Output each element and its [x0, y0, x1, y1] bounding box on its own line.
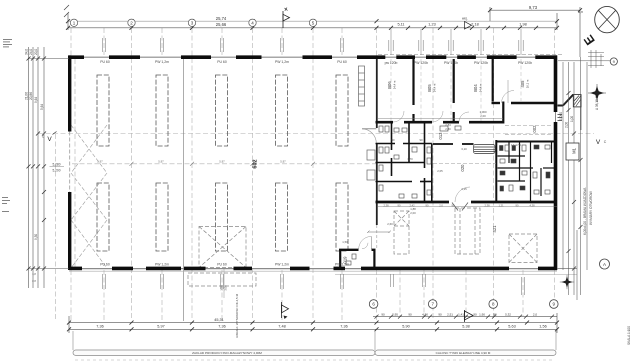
door arc hall/office	[362, 129, 376, 144]
svg-text:5,64: 5,64	[40, 104, 44, 110]
grid line 4	[252, 28, 254, 320]
door splay wall y202	[452, 203, 468, 211]
svg-text:17x17,5: 17x17,5	[511, 143, 521, 147]
top dimension texts	[216, 5, 538, 27]
tall roof element B (room 421)	[455, 208, 480, 254]
svg-text:1,060: 1,060	[559, 112, 563, 120]
grid bubbles top	[70, 19, 316, 26]
svg-text:1,21: 1,21	[498, 204, 504, 208]
svg-text:5,97: 5,97	[219, 160, 225, 164]
svg-text:2,0: 2,0	[533, 313, 538, 317]
svg-text:90: 90	[381, 313, 385, 317]
section flag A top	[283, 8, 290, 29]
svg-text:4,90: 4,90	[422, 313, 428, 317]
svg-text:5,90: 5,90	[402, 325, 409, 329]
roof overhang dashed office	[378, 53, 563, 55]
svg-text:B06: B06	[387, 81, 392, 89]
svg-text:14,4 m: 14,4 m	[433, 83, 437, 92]
svg-text:9,64: 9,64	[34, 97, 38, 103]
title bar left	[73, 350, 375, 355]
svg-text:PW 1,2m: PW 1,2m	[275, 263, 289, 267]
svg-text:7,36: 7,36	[218, 325, 225, 329]
skylight row2 c3	[216, 183, 228, 251]
skylight row1 c3	[216, 75, 228, 146]
svg-text:5,200: 5,200	[53, 169, 61, 173]
room divider B05/B04	[453, 59, 455, 103]
svg-text:1,70: 1,70	[407, 157, 413, 161]
exterior pavement right corner	[557, 230, 577, 300]
svg-text:5,32: 5,32	[505, 313, 511, 317]
svg-text:UWAGA: WYSOKOSC OK.4,5 M: UWAGA: WYSOKOSC OK.4,5 M	[235, 293, 239, 338]
horizontal axis V-C	[38, 133, 594, 135]
skylight row1 c2	[156, 75, 168, 146]
svg-text:9,30: 9,30	[34, 234, 38, 240]
svg-text:1,90: 1,90	[479, 313, 485, 317]
svg-text:5,97: 5,97	[158, 160, 164, 164]
upper dim line right	[490, 9, 580, 11]
skylight row2 c4	[276, 183, 288, 251]
svg-text:PW 1,2m: PW 1,2m	[155, 263, 169, 267]
TOP DIMENSION LINES	[68, 7, 580, 57]
skylight row1 c5	[336, 75, 348, 146]
grid line 5	[312, 28, 314, 320]
svg-text:20,86: 20,86	[29, 92, 33, 100]
window axis lines	[103, 28, 105, 55]
X BRACING left bay	[71, 125, 107, 268]
svg-text:PU 60: PU 60	[100, 60, 110, 64]
svg-text:2,00: 2,00	[565, 122, 569, 128]
title bar right	[375, 350, 556, 355]
svg-text:16,1 m: 16,1 m	[526, 79, 530, 88]
label box right wall	[566, 143, 579, 160]
room 020 top wall	[433, 143, 474, 145]
bottom wall window sill line	[69, 268, 557, 270]
skylight row2 c5	[336, 183, 348, 251]
LEFT DIMENSION COLUMN	[28, 47, 69, 288]
svg-text:21,06: 21,06	[25, 92, 29, 100]
right wall	[554, 55, 558, 112]
svg-text:pw 120b: pw 120b	[385, 61, 398, 65]
svg-text:24,0: 24,0	[29, 49, 33, 55]
svg-text:1,56: 1,56	[539, 325, 546, 329]
room divider B04/405	[492, 59, 494, 102]
corridor wall	[376, 121, 504, 124]
dimension ticks top	[66, 8, 582, 30]
interior face dashed line left wall	[74, 59, 76, 268]
GRIDS	[38, 28, 594, 322]
svg-text:CALOSC TYNKI ELEWACYJNE 4,90 M: CALOSC TYNKI ELEWACYJNE 4,90 M	[436, 351, 491, 355]
entrance arrow marker top	[462, 17, 472, 30]
svg-text:PW 1,2m: PW 1,2m	[155, 60, 169, 64]
grid bubble right top	[610, 58, 617, 65]
svg-text:25,66: 25,66	[216, 22, 227, 27]
bottom wall thick segments	[69, 267, 557, 271]
svg-text:4,15: 4,15	[461, 187, 467, 191]
grid line 9	[554, 28, 556, 55]
svg-text:90: 90	[493, 313, 497, 317]
svg-text:PW 1,2m: PW 1,2m	[275, 60, 289, 64]
grid line 6	[376, 28, 378, 58]
svg-text:2,38: 2,38	[383, 204, 389, 208]
window labels on walls	[100, 60, 532, 267]
window axes inside office rooms	[391, 59, 521, 121]
svg-text:7,48: 7,48	[278, 325, 285, 329]
faint dotted base line	[75, 359, 555, 361]
entrance canopy top right	[558, 95, 582, 131]
property dashed line left	[55, 134, 57, 320]
svg-text:90: 90	[391, 138, 395, 142]
corner tick marks top-left	[64, 5, 69, 17]
room 405 bottom wall	[492, 102, 501, 104]
svg-text:7,36: 7,36	[340, 325, 347, 329]
small shafts along boundary in hall	[359, 66, 376, 180]
svg-text:1,41: 1,41	[458, 313, 464, 317]
lower big wall	[376, 201, 450, 204]
skylight row1 c1	[97, 75, 109, 146]
svg-text:2,00: 2,00	[410, 211, 416, 215]
svg-text:PU 60: PU 60	[217, 263, 227, 267]
grid line 2	[131, 28, 133, 320]
grid line 3	[191, 28, 193, 320]
svg-text:14,4 m: 14,4 m	[393, 80, 397, 89]
svg-text:PU 60: PU 60	[337, 60, 347, 64]
svg-text:PU 60: PU 60	[100, 263, 110, 267]
svg-text:019: 019	[343, 256, 348, 264]
section marker V left	[42, 132, 57, 144]
svg-text:1,8: 1,8	[32, 272, 36, 276]
svg-text:5,97: 5,97	[280, 160, 286, 164]
window axis labels above top wall	[103, 29, 524, 55]
dashed line room 020	[433, 163, 496, 165]
svg-text:90: 90	[419, 138, 423, 142]
svg-text:wej.: wej.	[462, 17, 468, 21]
skylight row2 c1	[97, 183, 109, 251]
top wall thick segments	[69, 55, 557, 59]
svg-text:PW 120b: PW 120b	[518, 61, 532, 65]
wall x503	[502, 102, 504, 124]
HALL SKYLIGHTS	[97, 75, 348, 251]
svg-text:8 8: 8 8	[32, 279, 36, 283]
horizontal mid-hall axis	[72, 163, 376, 165]
toilet block walls left	[376, 124, 432, 202]
micro dim row below wall 202	[383, 204, 535, 208]
svg-text:002: 002	[532, 125, 537, 133]
grid bubbles bottom	[369, 300, 558, 309]
svg-text:V: V	[47, 136, 52, 143]
svg-text:9,73: 9,73	[529, 5, 538, 10]
star marker bottom right	[560, 275, 574, 289]
top wall window sill line	[69, 56, 557, 58]
svg-text:SKALA 1:100: SKALA 1:100	[627, 326, 631, 345]
toilet block walls right	[498, 143, 558, 203]
wall x496 landing	[495, 140, 497, 202]
svg-text:PW 120b: PW 120b	[444, 61, 458, 65]
interior dim line office small	[378, 119, 557, 207]
tiny text block far left top	[3, 39, 12, 47]
grid line 7	[432, 28, 434, 320]
svg-text:6,00x4,00 - BRAMA WJAZDOWA: 6,00x4,00 - BRAMA WJAZDOWA	[583, 187, 587, 235]
svg-text:2,05: 2,05	[437, 169, 443, 173]
svg-text:PW 120b: PW 120b	[474, 61, 488, 65]
svg-text:2,95: 2,95	[392, 313, 398, 317]
svg-text:1,23: 1,23	[428, 23, 435, 27]
left wall	[68, 55, 71, 131]
svg-text:5,63: 5,63	[508, 325, 515, 329]
svg-text:20,0: 20,0	[34, 49, 38, 55]
svg-text:7,36: 7,36	[96, 325, 103, 329]
svg-text:5,97: 5,97	[157, 325, 164, 329]
svg-text:3,00: 3,00	[224, 285, 228, 291]
svg-text:2,80: 2,80	[445, 127, 451, 131]
svg-text:2,60: 2,60	[387, 222, 393, 226]
bottom dimension numbers	[96, 313, 546, 329]
BOTTOM DIMENSION LINES	[69, 313, 557, 333]
svg-text:M1: M1	[572, 147, 577, 153]
section marker V right	[596, 139, 607, 146]
skylight row2 c2	[156, 183, 168, 251]
entrance mat hatched	[474, 145, 496, 154]
svg-text:90: 90	[408, 313, 412, 317]
svg-text:421: 421	[492, 225, 497, 233]
svg-text:2,51: 2,51	[447, 313, 453, 317]
dim line above room019	[367, 231, 391, 234]
OFFICE/HALL boundary wall	[362, 59, 377, 249]
svg-text:ZAKLAD PRODUKCYJNO-MAGAZYNOWY: ZAKLAD PRODUKCYJNO-MAGAZYNOWY 4,90M	[192, 351, 262, 355]
svg-text:B05: B05	[427, 84, 432, 92]
svg-text:1,50: 1,50	[342, 240, 348, 244]
LOADING DOCK bottom middle	[188, 227, 256, 287]
north arrow	[595, 6, 620, 32]
svg-text:PW 120b: PW 120b	[414, 61, 428, 65]
svg-text:2,00: 2,00	[480, 114, 486, 118]
svg-text:020: 020	[460, 164, 465, 172]
svg-text:405: 405	[520, 80, 525, 88]
micro dimension texts office	[342, 110, 521, 244]
interior door arcs office	[362, 80, 514, 249]
svg-text:5,11: 5,11	[397, 23, 404, 27]
svg-text:25,74: 25,74	[216, 16, 227, 21]
svg-text:4,38: 4,38	[529, 204, 535, 208]
svg-text:1,n: 1,n	[578, 10, 583, 14]
RIGHT DIMENSION COLUMN	[558, 50, 610, 295]
corridor 002 dashes	[505, 126, 553, 135]
svg-text:B04: B04	[473, 84, 478, 92]
room divider B06/B05	[412, 59, 414, 105]
section flag bottom right	[465, 310, 474, 322]
svg-text:602: 602	[253, 159, 259, 168]
roof hatch dashed rect C (room 421)	[509, 234, 537, 263]
grid bubble right bottom	[600, 259, 610, 269]
office room labels	[343, 79, 538, 263]
section flag bottom left	[282, 302, 289, 319]
svg-text:14,4 m: 14,4 m	[479, 83, 483, 92]
expansion joint line	[183, 57, 185, 321]
svg-text:45,31: 45,31	[214, 318, 224, 322]
bar connectors	[73, 331, 556, 350]
svg-text:2,0: 2,0	[439, 204, 443, 208]
svg-text:3,60: 3,60	[220, 285, 224, 291]
svg-text:PU 60: PU 60	[217, 60, 227, 64]
svg-text:A: A	[603, 262, 606, 267]
svg-text:5,280: 5,280	[53, 162, 61, 166]
WALLS	[69, 55, 557, 271]
toilet fixtures office block	[346, 126, 550, 265]
svg-text:V: V	[596, 139, 601, 146]
svg-text:2,38: 2,38	[484, 204, 490, 208]
corridor 002 bottom wall	[496, 141, 557, 143]
tiny marks far left middle	[2, 197, 10, 212]
left numbers 5,200	[50, 162, 65, 172]
skylight row1 c4	[276, 75, 288, 146]
svg-text:1,98: 1,98	[519, 23, 526, 27]
svg-text:5,38: 5,38	[462, 325, 469, 329]
svg-text:90: 90	[438, 313, 442, 317]
below-wall rotated labels	[103, 274, 525, 295]
axis crossing marks	[130, 162, 316, 166]
OFFICE WALLS	[376, 59, 558, 202]
star marker top right	[588, 84, 606, 102]
tall roof element A (room 421)	[394, 211, 409, 254]
grid line 8	[493, 28, 495, 320]
svg-text:2,18: 2,18	[471, 23, 478, 27]
pavement line below office	[335, 274, 577, 276]
svg-text:013: 013	[438, 132, 443, 140]
room 019	[339, 236, 376, 268]
grid line 1	[70, 28, 72, 55]
svg-text:1,00: 1,00	[570, 116, 574, 122]
svg-text:3,10: 3,10	[461, 147, 467, 151]
bottom ticks	[67, 315, 559, 332]
svg-text:34,0: 34,0	[25, 49, 29, 55]
svg-text:WYMIARY OTWOROW: WYMIARY OTWOROW	[589, 191, 593, 225]
svg-text:90: 90	[473, 313, 477, 317]
